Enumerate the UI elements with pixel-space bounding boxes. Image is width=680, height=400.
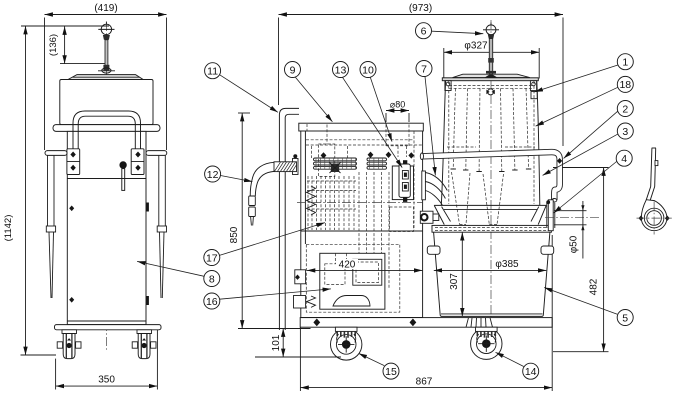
caster right side view xyxy=(471,327,502,359)
blower box top plate xyxy=(299,123,424,131)
bucket keeper right xyxy=(546,200,555,231)
handle mounting plate left xyxy=(67,149,80,175)
leader 18 xyxy=(536,87,618,126)
eye bolt side view xyxy=(483,23,499,39)
svg-text:13: 13 xyxy=(335,64,347,76)
leader 4 xyxy=(554,162,617,214)
svg-text:10: 10 xyxy=(362,64,374,76)
leader 2 xyxy=(564,111,618,158)
callout 11 xyxy=(205,63,221,79)
dust bucket xyxy=(434,232,550,316)
head box (motor head) xyxy=(60,80,153,125)
inlet duct (hidden) xyxy=(306,125,423,177)
handle U-tube xyxy=(73,111,141,174)
side strap right xyxy=(157,155,166,298)
svg-text:307: 307 xyxy=(449,273,460,290)
dashed bottom right of box xyxy=(390,207,414,232)
tank lid xyxy=(453,74,530,77)
svg-text:4: 4 xyxy=(621,153,627,165)
lid (head cover) xyxy=(68,75,143,80)
leader 10 xyxy=(370,77,392,141)
svg-text:1: 1 xyxy=(622,57,628,69)
callout 1 xyxy=(617,54,633,70)
side strap left xyxy=(46,155,55,298)
svg-text:(973): (973) xyxy=(409,3,432,14)
φ50 outlet axis xyxy=(545,217,600,219)
lid center fitting xyxy=(485,75,498,78)
callout 4 xyxy=(616,150,632,166)
svg-text:350: 350 xyxy=(98,375,115,386)
callout 18 xyxy=(617,76,633,92)
base frame side view xyxy=(300,318,552,328)
frame post tube xyxy=(279,108,299,330)
chamber deflector mound xyxy=(333,296,370,307)
inlet fitting with hose cuff xyxy=(274,154,298,174)
svg-text:16: 16 xyxy=(206,296,218,308)
suction hose xyxy=(249,162,274,225)
dim φ80 xyxy=(386,99,409,122)
dim 420 xyxy=(307,259,423,271)
shoulder flange xyxy=(53,125,160,132)
callout 5 xyxy=(617,310,633,326)
hose box to tank xyxy=(422,171,448,205)
switch box xyxy=(399,160,410,202)
svg-text:867: 867 xyxy=(416,376,433,387)
leader 5 xyxy=(544,288,617,315)
svg-text:(136): (136) xyxy=(48,34,59,56)
svg-text:φ385: φ385 xyxy=(495,259,519,270)
svg-text:101: 101 xyxy=(271,334,282,351)
callout 14 xyxy=(523,363,539,379)
svg-text:6: 6 xyxy=(421,26,427,38)
tank/bucket flange xyxy=(432,225,551,232)
blower axis centerline xyxy=(297,202,423,204)
callout 7 xyxy=(416,61,432,77)
door rivets xyxy=(69,206,74,212)
callout 17 xyxy=(204,250,220,266)
centerline left view xyxy=(105,22,107,352)
suspension springs xyxy=(307,186,316,307)
leader 16 xyxy=(220,289,331,299)
lifting rod rear view xyxy=(98,40,115,73)
callout 13 xyxy=(333,62,349,78)
svg-text:420: 420 xyxy=(339,260,356,271)
latch bracket (item 1 target) xyxy=(531,92,537,99)
leader 6 xyxy=(432,31,483,34)
dim 350 xyxy=(56,330,158,390)
bucket latch left xyxy=(420,211,439,223)
leader 12 xyxy=(221,176,253,182)
callout 16 xyxy=(204,293,220,309)
blower box body xyxy=(301,131,423,318)
blower cage hidden lines xyxy=(307,172,389,289)
eye bolt rear view xyxy=(98,22,114,40)
bag clamp knob xyxy=(486,89,494,95)
leader 13 xyxy=(343,77,403,167)
callout 3 xyxy=(617,123,633,139)
svg-text:9: 9 xyxy=(290,64,296,76)
dim (973) xyxy=(279,3,564,146)
leader 17 xyxy=(219,223,325,256)
bucket handle left xyxy=(427,246,440,254)
dim (1142) xyxy=(3,26,109,355)
tank shell xyxy=(441,81,540,206)
callout 15 xyxy=(383,363,399,379)
svg-text:17: 17 xyxy=(206,252,218,264)
caster right front view xyxy=(132,330,156,359)
svg-text:850: 850 xyxy=(229,226,240,243)
dim 867 xyxy=(300,235,552,391)
svg-text:2: 2 xyxy=(622,103,628,115)
dim 101 xyxy=(238,329,341,358)
dim 850 xyxy=(229,113,250,329)
lifting rod side view xyxy=(489,39,492,75)
dim 307 xyxy=(449,232,462,316)
filter bag hem (hidden) xyxy=(449,86,534,89)
dim (136) xyxy=(48,27,108,64)
callout 8 xyxy=(204,271,220,287)
bucket saddle xyxy=(466,318,493,328)
dim 482 xyxy=(553,168,609,352)
dim φ50 xyxy=(554,201,587,259)
leader 15 xyxy=(359,353,385,365)
tank rim band xyxy=(442,78,538,81)
svg-text:11: 11 xyxy=(207,66,218,78)
band lever bar xyxy=(420,152,562,202)
leader 1 xyxy=(535,65,619,92)
door hinges right xyxy=(146,203,149,212)
silencer port (φ80, hidden) xyxy=(386,125,409,147)
cord hook tab left xyxy=(45,151,67,156)
svg-text:⌀80: ⌀80 xyxy=(390,99,405,109)
svg-text:φ327: φ327 xyxy=(464,40,488,51)
svg-text:7: 7 xyxy=(421,63,427,75)
bucket handle right xyxy=(541,246,554,254)
leader 9 xyxy=(295,77,332,122)
svg-text:φ50: φ50 xyxy=(569,235,580,253)
leader 8 xyxy=(137,261,204,276)
lid clamp right xyxy=(530,81,536,91)
leader 7 xyxy=(425,77,435,176)
lid clamp left xyxy=(445,81,451,91)
filter bag pleats (hidden) xyxy=(447,89,535,172)
svg-text:482: 482 xyxy=(588,278,599,295)
chamber inner panel xyxy=(325,253,382,285)
svg-text:(419): (419) xyxy=(94,3,117,14)
dust chamber hidden outline xyxy=(306,244,400,312)
tank centerline xyxy=(490,20,492,318)
handle mounting plate right xyxy=(131,149,144,175)
callout 9 xyxy=(285,62,301,78)
callout 10 xyxy=(360,62,376,78)
switch box frame xyxy=(392,166,413,200)
svg-text:12: 12 xyxy=(207,169,219,181)
motor shaft boss xyxy=(330,163,341,174)
leader 3 xyxy=(543,134,618,175)
door latch knob xyxy=(119,161,126,190)
dust chamber door xyxy=(320,253,385,309)
leader 11 xyxy=(220,75,278,112)
svg-text:3: 3 xyxy=(622,126,628,138)
svg-text:18: 18 xyxy=(619,79,631,91)
bag lower tips (hidden) xyxy=(452,172,504,225)
caster left front view xyxy=(57,330,81,359)
svg-text:(1142): (1142) xyxy=(3,215,14,242)
dim (419) xyxy=(45,3,167,150)
cord hook tab right xyxy=(146,151,167,156)
bolt dots on box xyxy=(321,152,415,159)
svg-text:5: 5 xyxy=(622,312,628,324)
caster left side view xyxy=(331,327,362,360)
callout 2 xyxy=(617,101,633,117)
callout 6 xyxy=(416,23,432,39)
dim φ327 xyxy=(444,40,539,78)
door top edge xyxy=(67,178,146,180)
body (rear) xyxy=(67,131,146,324)
callout 12 xyxy=(205,166,221,182)
tank funnel bottom xyxy=(434,205,546,224)
svg-text:8: 8 xyxy=(209,273,215,285)
base frame rear xyxy=(55,325,162,330)
leader 14 xyxy=(496,352,524,366)
dim φ385 xyxy=(434,258,547,271)
motor louvres xyxy=(314,158,387,169)
left wall brackets xyxy=(294,270,306,308)
svg-text:14: 14 xyxy=(525,366,537,378)
svg-text:15: 15 xyxy=(385,366,397,378)
